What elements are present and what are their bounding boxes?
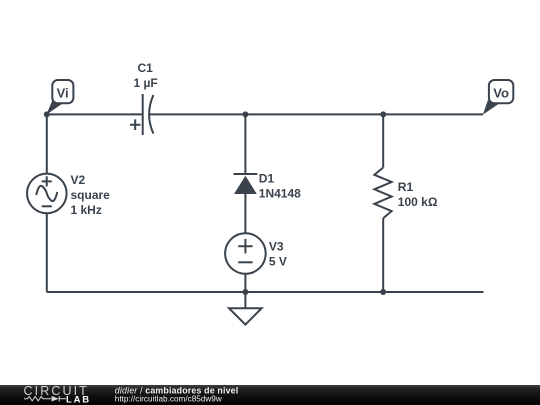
svg-text:C1: C1	[138, 61, 154, 75]
junction: top net / R1 branch	[380, 111, 386, 117]
svg-text:1 µF: 1 µF	[133, 76, 157, 90]
wire: top net down to R1 top	[382, 114, 384, 167]
svg-text:1N4148: 1N4148	[259, 186, 301, 200]
CircuitLab logo resistor-diode glyph	[24, 396, 66, 402]
ground	[229, 308, 262, 324]
svg-text:square: square	[71, 188, 111, 202]
node Vi	[46, 80, 73, 115]
diode D1	[234, 174, 258, 194]
svg-text:D1: D1	[259, 172, 275, 186]
wire: V3 bottom terminal to bottom net	[244, 274, 246, 292]
svg-text:Vi: Vi	[57, 86, 69, 101]
wire: ground stub	[244, 292, 246, 308]
wire: top net from C1 right plate to Vo end	[150, 113, 483, 115]
label D1 value	[259, 172, 301, 201]
wire: top net from Vi node to C1 left plate	[47, 113, 142, 115]
junction: bottom net / R1 branch	[380, 289, 386, 295]
svg-text:V3: V3	[269, 240, 284, 254]
svg-text:100 kΩ: 100 kΩ	[398, 195, 438, 209]
resistor R1	[374, 168, 391, 219]
node Vo	[483, 80, 513, 115]
svg-text:R1: R1	[398, 180, 414, 194]
junction: Vi corner node	[44, 111, 50, 117]
junction: top net / diode branch	[242, 111, 248, 117]
wire: top net down to D1 cathode	[244, 114, 246, 174]
wire: V2 bottom terminal down to bottom net	[46, 213, 48, 292]
capacitor C1	[130, 94, 153, 135]
footer bar	[0, 385, 540, 405]
wire: bottom net	[47, 291, 484, 293]
wire: R1 bottom to bottom net	[382, 218, 384, 292]
source V2	[27, 174, 67, 214]
wire: Vi node down to V2 top terminal	[46, 114, 48, 173]
source V3	[225, 233, 266, 274]
label R1 value	[398, 180, 438, 209]
svg-text:1 kHz: 1 kHz	[71, 203, 102, 217]
label V3 value	[269, 240, 287, 269]
svg-text:Vo: Vo	[493, 86, 509, 101]
wire: D1 anode down to V3 top terminal	[244, 194, 246, 233]
junction: bottom net / ground	[242, 289, 248, 295]
label V2 value	[71, 173, 111, 217]
svg-text:5 V: 5 V	[269, 255, 287, 269]
svg-text:V2: V2	[71, 173, 86, 187]
label C1 value	[133, 61, 157, 90]
